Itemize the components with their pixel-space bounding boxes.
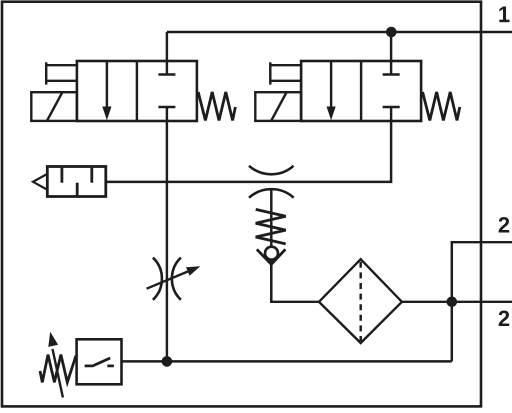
valve V2 solenoid box	[255, 92, 301, 121]
regulator seat upper arc	[249, 166, 294, 174]
node junction dot at bottom line	[162, 356, 173, 367]
flow control throttle right arc	[172, 258, 181, 300]
check valve ball	[265, 247, 278, 260]
filter diamond	[319, 259, 402, 343]
valve V2 solenoid diagonal	[271, 92, 287, 121]
wire: filter outlet to port 2 lower	[402, 301, 512, 303]
valve V2 bottom port stem (blocked)	[383, 106, 400, 108]
silencer baffle 2	[76, 183, 79, 197]
wire: valve V1 outlet down to bottom node	[166, 107, 168, 361]
valve V2 body	[301, 61, 421, 121]
wire: bottom horizontal (pressure switch to riser)	[122, 360, 452, 362]
valve V1 position divider	[136, 61, 138, 121]
pressure switch adjust arrow	[53, 349, 63, 398]
flow control throttle left arc	[153, 258, 162, 300]
node junction dot on line 1	[386, 27, 397, 38]
valve V2 pilot bracket	[269, 62, 271, 84]
silencer exhaust triangle	[33, 174, 47, 190]
valve V1 solenoid diagonal	[47, 92, 63, 121]
valve V2 return spring	[423, 92, 460, 120]
valve V2 top port stem (blocked)	[390, 32, 392, 75]
regulator seat lower arc	[249, 189, 294, 198]
check valve stem	[270, 190, 272, 302]
svg-text:2: 2	[498, 306, 510, 331]
valve V2 position divider	[360, 61, 362, 121]
wire: valve V2 outlet down and left to silencer	[106, 107, 391, 182]
check valve seat V	[257, 249, 286, 264]
pressure switch box	[77, 339, 122, 384]
pressure switch spring	[40, 355, 76, 383]
svg-text:2: 2	[498, 213, 510, 238]
valve V1 pilot bracket	[45, 62, 47, 84]
valve V1 flow arrow	[106, 61, 108, 108]
pressure switch contact	[85, 365, 94, 368]
silencer baffle 1	[61, 167, 64, 183]
wire: port 2 upper branch	[452, 242, 512, 361]
svg-text:1: 1	[498, 2, 510, 27]
filter dashed element	[359, 262, 361, 341]
check valve spring	[256, 209, 286, 244]
silencer baffle 3	[90, 167, 93, 183]
valve V1 bottom port stem (blocked)	[158, 106, 175, 108]
wire: check valve to filter	[271, 264, 319, 302]
node junction dot at port 2 cross	[447, 297, 458, 308]
valve V1 body	[77, 61, 197, 121]
valve V2 flow arrow	[330, 61, 332, 108]
wire: supply line 1 (top horizontal)	[167, 31, 512, 33]
flow control adjust arrow	[147, 271, 189, 289]
valve V1 return spring	[198, 92, 235, 120]
valve V1 solenoid box	[31, 92, 77, 121]
silencer body	[47, 167, 106, 197]
valve V1 top port stem (blocked)	[166, 32, 168, 75]
